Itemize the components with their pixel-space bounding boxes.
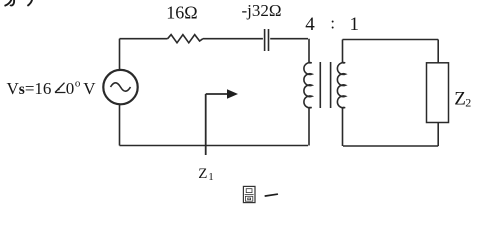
wire bottom primary — [120, 145, 309, 147]
svg-text:-j32Ω: -j32Ω — [242, 1, 282, 20]
wire right vertical lower — [437, 123, 439, 147]
svg-text:1: 1 — [350, 14, 360, 35]
wire top-left horizontal — [120, 38, 168, 40]
wire left vertical upper — [119, 39, 121, 70]
wire right vertical upper — [437, 40, 439, 63]
wire secondary bottom stub — [343, 107, 345, 146]
svg-text:Z: Z — [454, 89, 466, 110]
arrow Z1 head — [227, 89, 238, 98]
text cropped char 2 — [27, 0, 32, 6]
svg-text:2: 2 — [465, 96, 471, 110]
symbol angle tick — [58, 88, 60, 90]
wire left vertical lower — [119, 104, 121, 145]
wire top secondary — [343, 39, 439, 41]
text figure caption glyph one — [265, 194, 277, 196]
svg-text:1: 1 — [208, 171, 214, 183]
wire resistor to capacitor — [203, 38, 263, 40]
svg-text:o: o — [75, 78, 81, 90]
load Z2 rectangle — [427, 63, 449, 123]
svg-text:V: V — [83, 79, 96, 98]
wire capacitor to transformer — [270, 38, 308, 40]
wire bottom secondary — [343, 145, 438, 147]
resistor R (16 ohm) zigzag — [168, 35, 203, 43]
symbol angle — [55, 83, 66, 93]
text cropped char 1 — [5, 0, 15, 6]
wire primary bottom stub — [309, 107, 311, 145]
svg-text::: : — [330, 14, 335, 33]
svg-text:Vs=16: Vs=16 — [7, 79, 52, 98]
wire secondary top stub — [343, 40, 345, 64]
svg-text:16Ω: 16Ω — [166, 3, 197, 23]
inductor secondary winding — [337, 63, 345, 108]
transformer core lines — [320, 62, 330, 108]
svg-text:0: 0 — [66, 79, 75, 98]
svg-text:Z: Z — [198, 166, 207, 182]
wire primary top stub down — [309, 39, 311, 63]
text figure caption glyph tu — [243, 186, 255, 202]
source sine symbol — [111, 83, 131, 91]
capacitor C (-j32 ohm) plates — [265, 29, 269, 51]
source Vs circle — [103, 70, 137, 104]
arrow Z1 vertical line — [205, 94, 207, 155]
svg-text:4: 4 — [305, 14, 315, 35]
inductor primary winding — [304, 63, 312, 108]
arrow Z1 horizontal line — [206, 93, 228, 95]
